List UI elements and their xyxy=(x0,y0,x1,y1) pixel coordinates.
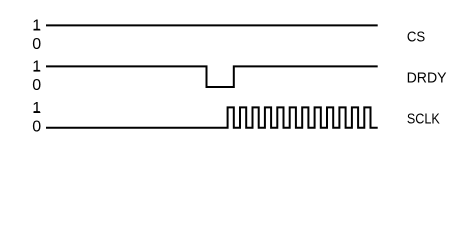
svg-text:DRDY: DRDY xyxy=(407,70,447,86)
serif foot of digit 1 (DRDY row) xyxy=(34,70,40,72)
serif foot of digit 1 (CS row) xyxy=(34,29,40,31)
svg-text:SCLK: SCLK xyxy=(407,109,441,126)
svg-text:CS: CS xyxy=(407,27,425,44)
svg-text:1: 1 xyxy=(32,100,41,117)
svg-text:0: 0 xyxy=(32,36,41,53)
svg-text:1: 1 xyxy=(32,59,41,76)
serif foot of digit 1 (SCLK row) xyxy=(34,111,40,113)
wire CS waveform (constant high) xyxy=(46,24,378,26)
svg-text:0: 0 xyxy=(32,119,41,136)
timing diagram xyxy=(0,0,474,161)
svg-text:1: 1 xyxy=(32,18,41,35)
svg-text:0: 0 xyxy=(32,77,41,94)
wire DRDY waveform (high, low pulse, high) xyxy=(46,66,378,87)
wire SCLK waveform (low, 12 clock pulses, low) xyxy=(46,107,378,127)
